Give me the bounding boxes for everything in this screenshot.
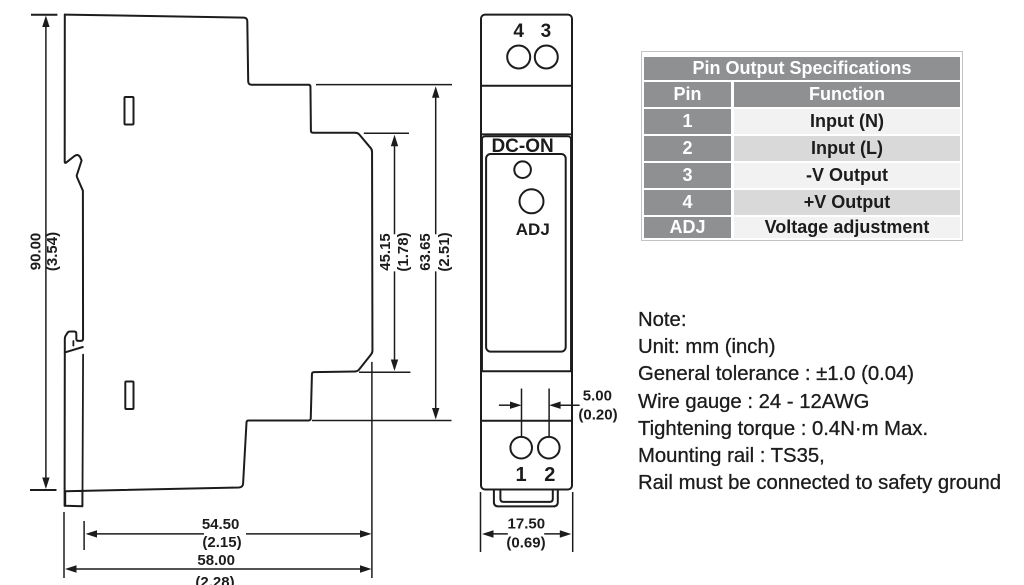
ref line y=133 for 45.15 xyxy=(364,132,409,134)
arrowhead 90.00 up xyxy=(42,16,49,28)
svg-text:ADJ: ADJ xyxy=(516,220,550,239)
centerline pin 2 xyxy=(548,389,550,438)
front view outer body xyxy=(481,15,572,490)
svg-text:3: 3 xyxy=(541,21,552,42)
arrowhead 5.00 pointing right xyxy=(510,402,522,409)
dim 90.00 vertical line xyxy=(45,25,47,479)
svg-text:(0.20): (0.20) xyxy=(578,407,617,424)
inner wall line xyxy=(82,355,85,491)
svg-text:4: 4 xyxy=(513,21,524,42)
divider above bottom terminal block xyxy=(481,420,572,422)
DIN rail foot outer xyxy=(494,490,558,507)
dim 17.50 right extension line xyxy=(572,492,574,552)
table title row xyxy=(644,57,960,80)
lower clip bottom slope xyxy=(65,347,83,352)
ref line y=85 for 63.65 xyxy=(316,84,452,86)
arrowhead 54.50 left xyxy=(86,530,98,537)
svg-text:1: 1 xyxy=(515,464,526,486)
arrowhead 58.00 left xyxy=(65,565,77,572)
dim 17.50 line xyxy=(492,533,562,535)
DC-ON LED circle xyxy=(514,161,531,178)
dim 5.00 left arrow tail xyxy=(499,404,510,406)
table row pin 2 xyxy=(644,136,960,161)
arrowhead 63.65 down xyxy=(432,408,439,420)
table row pin 3 xyxy=(644,163,960,188)
arrowhead 54.50 right xyxy=(360,530,372,537)
arrowhead 58.00 right xyxy=(360,565,372,572)
arrowhead 63.65 up xyxy=(432,86,439,98)
arrowhead 90.00 down xyxy=(42,478,49,490)
note text block xyxy=(638,307,1001,497)
dim 90.00 top tick xyxy=(31,14,57,16)
svg-text:(1.78): (1.78) xyxy=(395,232,412,271)
svg-text:90.00: 90.00 xyxy=(28,233,45,271)
terminal circle pin 1 xyxy=(510,437,532,459)
dim 54.50 horizontal line xyxy=(95,533,362,535)
dim 90.00 bottom tick xyxy=(30,489,57,491)
dim 17.50 left extension line xyxy=(480,492,482,552)
lower clip stub xyxy=(72,341,74,346)
dim 5.00 right arrow tail xyxy=(560,404,580,406)
table row pin 1 xyxy=(644,109,960,134)
terminal circle pin 3 xyxy=(535,46,558,69)
arrowhead 17.50 right xyxy=(560,530,572,537)
table header row xyxy=(644,82,960,107)
arrowhead 45.15 up xyxy=(391,135,398,147)
front label inset rounded rect xyxy=(486,154,566,352)
side view outline: top, right stepped side, bottom xyxy=(65,15,373,507)
terminal circle pin 2 xyxy=(538,437,560,459)
upper side slot xyxy=(125,97,134,125)
svg-text:17.50: 17.50 xyxy=(508,516,546,533)
svg-text:(2.28): (2.28) xyxy=(195,574,234,585)
svg-text:(2.51): (2.51) xyxy=(436,232,453,271)
svg-text:DC-ON: DC-ON xyxy=(491,136,553,157)
svg-text:54.50: 54.50 xyxy=(202,516,240,533)
svg-text:(0.69): (0.69) xyxy=(506,535,545,552)
arrowhead 45.15 down xyxy=(391,360,398,372)
table row ADJ xyxy=(644,217,960,238)
DC-ON face section rounded box xyxy=(482,136,571,371)
table row pin 4 xyxy=(644,190,960,215)
ref line y=420.6 for 63.65 bottom xyxy=(312,420,452,422)
svg-text:2: 2 xyxy=(544,464,555,486)
dim 54.50 extension tick xyxy=(83,521,85,550)
pin output specifications table xyxy=(641,51,963,241)
dim 45.15 vertical line xyxy=(394,144,396,362)
svg-text:45.15: 45.15 xyxy=(377,233,394,271)
svg-text:(2.15): (2.15) xyxy=(202,534,241,551)
dim 58.00 horizontal line xyxy=(75,568,362,570)
ref line y=372 for 45.15 bottom xyxy=(359,371,410,373)
dim 58.00 left extension line xyxy=(63,512,65,578)
centerline pin 1 xyxy=(521,389,523,438)
arrowhead 17.50 left xyxy=(482,530,494,537)
divider above lower band xyxy=(481,370,572,372)
side view left edge with DIN-rail clip notches xyxy=(65,15,83,506)
arrowhead 5.00 pointing left xyxy=(549,402,561,409)
ADJ potentiometer circle xyxy=(520,189,544,213)
divider below blank band xyxy=(481,133,572,135)
terminal circle pin 4 xyxy=(507,46,530,69)
DIN rail foot inner xyxy=(500,490,552,502)
svg-text:5.00: 5.00 xyxy=(583,388,612,405)
shared right extension line x=372 xyxy=(371,362,373,578)
divider below top terminal block xyxy=(481,85,572,87)
svg-text:63.65: 63.65 xyxy=(417,233,434,271)
dim 63.65 vertical line xyxy=(435,96,437,410)
svg-text:58.00: 58.00 xyxy=(197,552,235,569)
lower side slot xyxy=(125,382,133,410)
svg-text:(3.54): (3.54) xyxy=(44,232,61,271)
